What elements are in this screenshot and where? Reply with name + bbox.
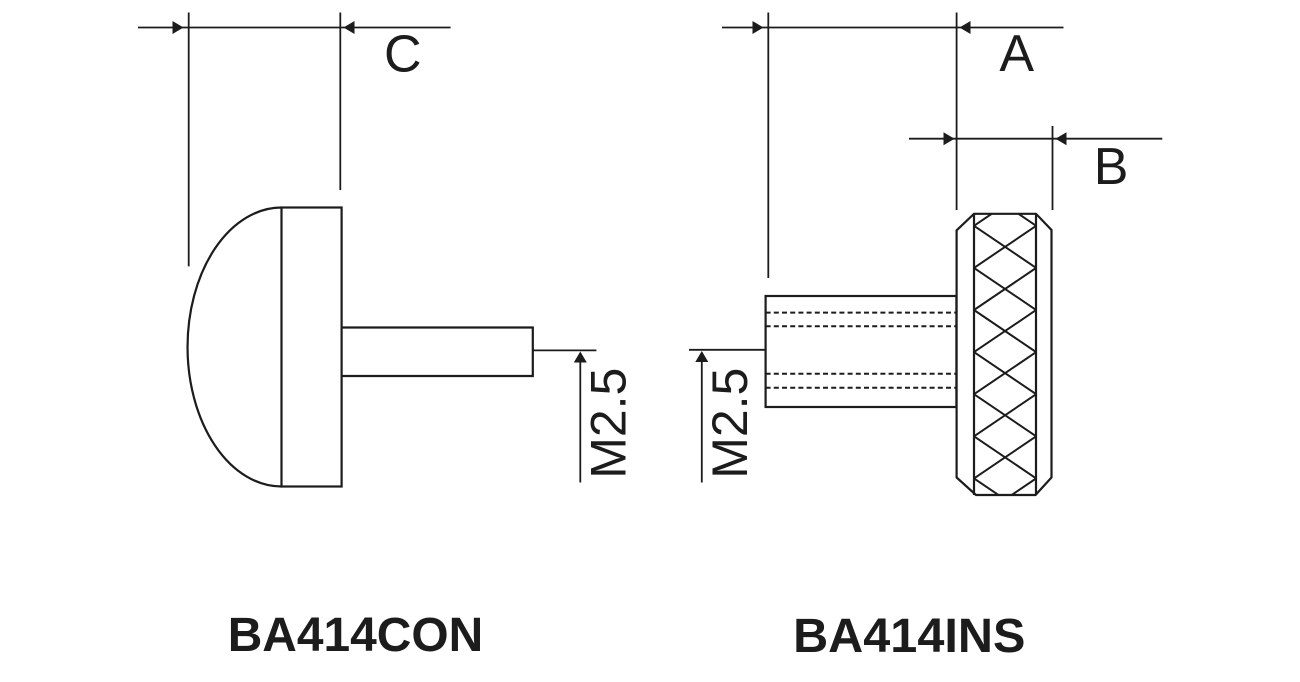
extension line (shaft left end) xyxy=(767,13,769,279)
svg-text:B: B xyxy=(1094,138,1129,196)
thread dashed line 2 xyxy=(766,325,957,327)
dimension line C xyxy=(138,13,451,267)
svg-text:BA414CON: BA414CON xyxy=(228,609,484,662)
knurl face line right xyxy=(1035,214,1037,495)
arrowhead C left xyxy=(173,21,184,34)
dimension line A xyxy=(722,13,1064,279)
leader line M2.5 (left figure) xyxy=(533,349,597,351)
svg-text:C: C xyxy=(384,26,422,84)
arrowhead B right xyxy=(1056,132,1067,145)
leader line M2.5 (right figure) xyxy=(689,349,766,351)
knurl cross-hatch xyxy=(974,184,1036,521)
extension line (head face) xyxy=(339,13,341,191)
dimension line B xyxy=(909,126,1162,210)
vertical dimension line with up arrow (left figure) xyxy=(579,353,581,483)
head rectangle part xyxy=(282,208,342,487)
arrowhead A left xyxy=(753,21,764,34)
svg-text:M2.5: M2.5 xyxy=(702,368,758,479)
arrowhead A right xyxy=(960,21,971,34)
threaded shaft of BA414INS xyxy=(766,296,957,407)
thread dashed line 4 xyxy=(766,387,957,389)
arrowhead B left xyxy=(944,132,955,145)
knurled head of BA414INS (octagon outline) xyxy=(957,214,1052,495)
arrowhead up (right figure) xyxy=(695,351,708,362)
svg-text:A: A xyxy=(999,25,1034,83)
svg-text:BA414INS: BA414INS xyxy=(793,609,1025,663)
knurl face line left xyxy=(973,214,975,495)
svg-text:M2.5: M2.5 xyxy=(581,368,637,479)
thread dashed line 1 xyxy=(766,312,957,314)
arrowhead up (left figure) xyxy=(574,352,587,363)
extension line (head left face) xyxy=(956,13,958,211)
vertical dimension line with up arrow (right figure) xyxy=(701,353,703,483)
arrowhead C right xyxy=(344,21,355,34)
head of BA414CON : dome (half ellipse) xyxy=(188,208,282,487)
thread dashed line 3 xyxy=(766,373,957,375)
extension line (head right face) xyxy=(1052,126,1054,210)
shaft of BA414CON xyxy=(342,328,533,377)
extension line (dome apex) xyxy=(188,13,190,267)
